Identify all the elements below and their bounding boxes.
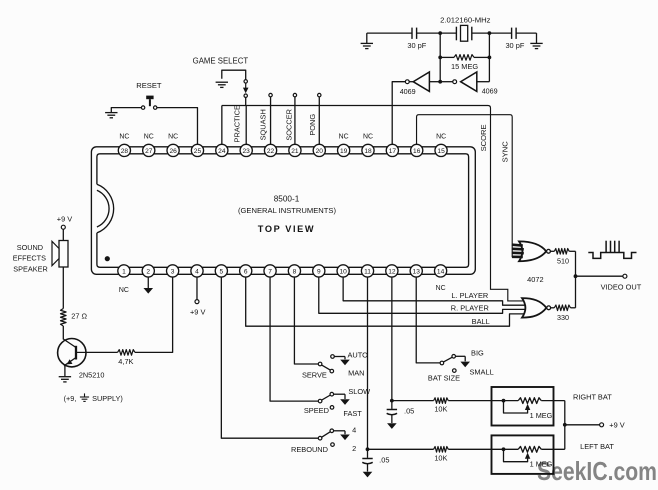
svg-text:L. PLAYER: L. PLAYER	[451, 291, 488, 300]
inverter U2 4069 (left)	[409, 81, 413, 83]
switch S2 game select wiper chain	[244, 80, 247, 83]
pin 3	[167, 265, 179, 277]
pin 6	[240, 265, 252, 277]
wire pin 9 R.PLAYER	[319, 277, 526, 313]
svg-text:16: 16	[413, 148, 421, 155]
capacitor C2 30 pF	[511, 28, 513, 39]
wire to 10K left bat	[368, 448, 434, 450]
wire pin 3 to 4.7K	[135, 277, 173, 352]
wire pin 5 to rebound	[221, 277, 318, 438]
svg-text:27: 27	[145, 148, 153, 155]
wire pin 4 +9V stub	[196, 277, 198, 300]
svg-text:SLOW: SLOW	[348, 387, 370, 396]
wire +9V to speaker	[62, 229, 64, 240]
ground (C4)	[363, 472, 373, 478]
svg-text:30 pF: 30 pF	[407, 41, 426, 50]
svg-text:PONG: PONG	[308, 114, 317, 136]
svg-text:SMALL: SMALL	[469, 367, 493, 376]
pin 4	[191, 265, 203, 277]
svg-text:+9 V: +9 V	[57, 215, 72, 224]
svg-text:26: 26	[169, 148, 177, 155]
node junction pin11/cap	[366, 447, 370, 451]
node osc main line	[367, 32, 412, 34]
svg-text:RESET: RESET	[136, 81, 162, 90]
resistor R8 510	[550, 250, 554, 252]
wire clock to pin 17	[392, 82, 405, 145]
switch S4 SPEED	[318, 399, 322, 403]
wire game select	[222, 70, 246, 79]
svg-text:8: 8	[293, 268, 297, 275]
svg-text:10K: 10K	[434, 453, 447, 462]
svg-text:+9 V: +9 V	[190, 308, 205, 317]
pin 13	[410, 265, 422, 277]
switch S6 BAT SIZE	[440, 361, 444, 365]
resistor R3 27 ohm	[61, 309, 67, 327]
svg-text:4: 4	[352, 426, 356, 435]
pin 1 index dot	[105, 256, 110, 261]
pin 7	[264, 265, 276, 277]
resistor R5 10K	[434, 447, 449, 453]
svg-text:BALL: BALL	[472, 317, 490, 326]
crystal Y1 2.012160-MHz	[455, 27, 457, 41]
svg-text:15: 15	[437, 148, 445, 155]
wire emitter to ground	[64, 365, 66, 376]
terminal VIDEO OUT	[623, 274, 627, 278]
wire pin 10 L.PLAYER	[343, 277, 526, 305]
svg-text:TOP VIEW: TOP VIEW	[258, 224, 315, 234]
node +9V tee	[563, 423, 567, 427]
pin 20	[313, 144, 325, 156]
svg-text:13: 13	[413, 268, 421, 275]
speaker LS1	[59, 241, 68, 268]
svg-text:2: 2	[146, 268, 150, 275]
ground (bat size)	[460, 362, 470, 368]
wire pin 12 to cap/10K (right bat)	[391, 277, 393, 401]
pin 18	[362, 144, 374, 156]
svg-text:17: 17	[389, 148, 397, 155]
svg-text:NC: NC	[144, 134, 154, 141]
svg-text:FAST: FAST	[343, 409, 362, 418]
svg-text:10: 10	[339, 268, 347, 275]
svg-text:SUPPLY): SUPPLY)	[92, 394, 123, 403]
svg-text:18: 18	[364, 148, 372, 155]
pin 9	[313, 265, 325, 277]
inverter U3 4069 (right)	[440, 81, 453, 83]
svg-text:.05: .05	[404, 406, 414, 415]
wire pin 7 to speed	[270, 277, 318, 401]
resistor R9 330	[551, 307, 555, 309]
pin 21	[289, 144, 301, 156]
svg-text:23: 23	[243, 148, 251, 155]
svg-text:SPEED: SPEED	[304, 406, 329, 415]
pin 8	[288, 265, 300, 277]
pin 24	[216, 144, 228, 156]
svg-text:20: 20	[316, 148, 324, 155]
svg-text:3: 3	[171, 268, 175, 275]
wire inverter R input from node B	[477, 81, 490, 83]
resistor R1 15 MEG	[440, 56, 454, 58]
svg-text:AUTO: AUTO	[347, 351, 368, 360]
waveform symbol composite video	[588, 253, 636, 259]
pin 12	[386, 265, 398, 277]
capacitor C4 .05	[367, 449, 369, 458]
wire to 10K right bat	[392, 400, 434, 402]
wire pin 11 to cap/10K (left bat)	[367, 277, 369, 449]
pin 15	[435, 144, 447, 156]
svg-text:330: 330	[557, 313, 569, 322]
resistor R4 10K	[434, 398, 449, 404]
ground (osc right)	[536, 33, 538, 43]
node B osc	[488, 33, 490, 82]
svg-text:8500-1: 8500-1	[274, 195, 300, 204]
svg-text:10K: 10K	[434, 405, 447, 414]
svg-text:11: 11	[364, 268, 371, 275]
resistor R2 4.7K	[118, 350, 136, 356]
svg-text:19: 19	[340, 148, 348, 155]
wire pin 13 to bat size	[416, 277, 440, 363]
pin 28	[118, 144, 130, 156]
svg-text:(+9,: (+9,	[64, 394, 77, 403]
wire reset to pin 25	[157, 108, 198, 145]
svg-text:4072: 4072	[527, 275, 543, 284]
svg-text:NC: NC	[119, 134, 129, 141]
svg-text:27 Ω: 27 Ω	[71, 312, 87, 321]
pin 17	[386, 144, 398, 156]
pin 19	[338, 144, 350, 156]
svg-text:SCORE: SCORE	[479, 124, 488, 151]
ground (reset)	[105, 113, 117, 118]
svg-text:NC: NC	[339, 134, 349, 141]
ground (rebound)	[340, 435, 350, 441]
svg-text:SOUND: SOUND	[17, 243, 43, 252]
svg-text:12: 12	[388, 268, 396, 275]
ground (C3)	[387, 423, 397, 429]
svg-text:2N5210: 2N5210	[79, 371, 105, 380]
svg-text:EFFECTS: EFFECTS	[13, 253, 46, 262]
pot LEFT BAT box	[492, 435, 554, 474]
svg-text:4: 4	[195, 268, 199, 275]
svg-text:SeekIC.com: SeekIC.com	[537, 456, 657, 486]
node video out junction	[574, 274, 578, 278]
svg-text:5: 5	[220, 268, 224, 275]
svg-text:NC: NC	[436, 134, 446, 141]
svg-text:SQUASH: SQUASH	[259, 109, 268, 140]
wire pin 21 riser (SOCCER)	[293, 93, 296, 96]
svg-text:GAME SELECT: GAME SELECT	[193, 56, 249, 65]
IC notch arcs	[97, 184, 114, 233]
pin 2	[142, 265, 154, 277]
ground (emitter)	[59, 377, 71, 382]
svg-text:REBOUND: REBOUND	[291, 445, 328, 454]
svg-text:PRACTICE: PRACTICE	[232, 105, 241, 142]
capacitor C3 .05	[391, 401, 393, 409]
gate U4B 4072 (bottom, video)	[522, 298, 546, 318]
wires U4A inputs from sync	[512, 243, 523, 247]
svg-text:14: 14	[437, 268, 445, 275]
svg-text:28: 28	[121, 148, 129, 155]
svg-text:LEFT BAT: LEFT BAT	[580, 442, 614, 451]
svg-text:SERVE: SERVE	[302, 370, 327, 379]
svg-text:1 MEG: 1 MEG	[530, 411, 553, 420]
pin 23	[240, 144, 252, 156]
svg-text:BAT SIZE: BAT SIZE	[428, 374, 460, 383]
svg-text:4069: 4069	[400, 87, 416, 96]
wire reset left to ground	[111, 108, 141, 113]
capacitor C1 30 pF	[411, 28, 413, 39]
svg-text:MAN: MAN	[348, 369, 364, 378]
terminal +9V right	[600, 423, 604, 427]
wire pin 23 riser (PRACTICE)	[245, 106, 247, 145]
svg-text:1: 1	[122, 268, 126, 275]
svg-text:NC: NC	[119, 287, 129, 294]
switch S3 SERVE	[318, 362, 322, 366]
svg-text:30 pF: 30 pF	[505, 41, 524, 50]
wire pin 6 BALL	[246, 277, 526, 326]
svg-text:510: 510	[557, 256, 569, 265]
switch S5 REBOUND	[318, 436, 322, 440]
switch S1 RESET pushbutton	[146, 96, 153, 100]
pin 26	[167, 144, 179, 156]
wire 27ohm to collector	[62, 326, 64, 340]
ground (game select)	[216, 82, 228, 87]
svg-text:4,7K: 4,7K	[118, 357, 133, 366]
svg-text:24: 24	[218, 148, 226, 155]
svg-text:22: 22	[267, 148, 275, 155]
pin 27	[143, 144, 155, 156]
svg-text:21: 21	[291, 148, 299, 155]
svg-text:4069: 4069	[482, 87, 498, 96]
svg-text:NC: NC	[363, 134, 373, 141]
svg-text:+9 V: +9 V	[609, 420, 624, 429]
pot LEFT BAT wiring	[492, 448, 519, 450]
node junction pin12/cap	[390, 399, 394, 403]
transistor Q1 2N5210	[58, 339, 86, 367]
svg-text:NC: NC	[436, 285, 446, 292]
ground (pin 2)	[147, 277, 149, 288]
pin 22	[264, 144, 276, 156]
ground (speed)	[340, 399, 350, 405]
svg-text:VIDEO OUT: VIDEO OUT	[601, 283, 642, 292]
node A osc	[439, 33, 441, 82]
svg-text:SOCCER: SOCCER	[285, 109, 294, 141]
wire pin 20 riser (PONG)	[318, 93, 321, 96]
svg-text:9: 9	[317, 268, 321, 275]
wire pin 24 riser	[221, 106, 223, 145]
svg-text:6: 6	[244, 268, 248, 275]
svg-text:.05: .05	[379, 456, 389, 465]
pin 14	[434, 265, 446, 277]
svg-text:2.012160-MHz: 2.012160-MHz	[440, 16, 491, 25]
svg-text:(GENERAL INSTRUMENTS): (GENERAL INSTRUMENTS)	[238, 206, 336, 215]
wire pin 22 riser (SQUASH)	[269, 93, 272, 96]
wire pot bus to +9V	[564, 401, 566, 450]
wire speaker to 27ohm	[62, 267, 64, 309]
ground (serve)	[340, 360, 350, 366]
svg-text:SPEAKER: SPEAKER	[13, 265, 47, 274]
svg-text:SYNC: SYNC	[500, 141, 509, 163]
wire pin16 to SYNC line	[417, 115, 513, 257]
pin 16	[411, 144, 423, 156]
svg-text:BIG: BIG	[471, 348, 484, 357]
svg-text:R. PLAYER: R. PLAYER	[451, 303, 489, 312]
wire inverter L input	[429, 81, 440, 83]
svg-text:7: 7	[268, 268, 272, 275]
svg-text:RIGHT BAT: RIGHT BAT	[573, 393, 612, 402]
gate U4A 4072 (top, sync)	[519, 241, 546, 261]
wire video summing node	[575, 251, 577, 307]
pin 1	[118, 265, 130, 277]
IC U1 8500-1 package outline (outer)	[91, 147, 475, 274]
svg-text:2: 2	[352, 444, 356, 453]
pot RIGHT BAT box	[492, 387, 554, 426]
ground (osc left)	[366, 33, 368, 43]
pot RIGHT BAT wiring	[492, 400, 519, 402]
svg-text:NC: NC	[168, 134, 178, 141]
pin 11	[361, 265, 373, 277]
node game-select bus / score line	[222, 106, 526, 301]
svg-text:25: 25	[194, 148, 202, 155]
pin 5	[215, 265, 227, 277]
svg-text:1 MEG: 1 MEG	[530, 460, 553, 469]
IC U1 8500-1 package outline (inner)	[97, 154, 469, 267]
pin 25	[191, 144, 203, 156]
wire pin 8 to serve	[294, 277, 318, 364]
svg-text:15 MEG: 15 MEG	[451, 62, 478, 71]
pin 10	[337, 265, 349, 277]
